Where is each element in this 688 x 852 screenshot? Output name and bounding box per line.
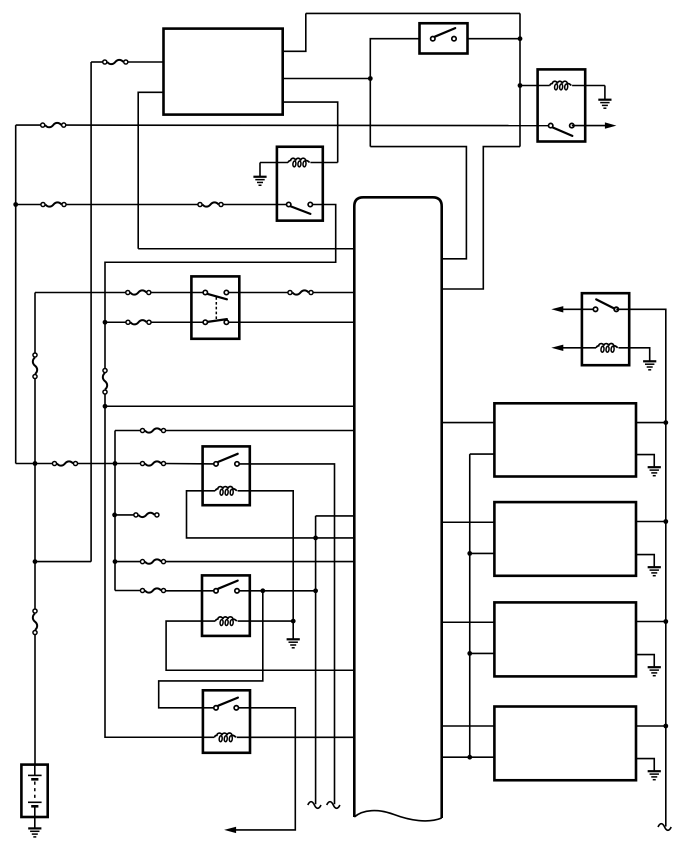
relay K2 coil <box>550 81 572 90</box>
node dot (115,561.6) <box>113 559 118 564</box>
battery BT1 cells <box>28 765 42 817</box>
node dot (114.6,514.9) <box>112 513 117 518</box>
wire M2 ground stub <box>636 555 654 568</box>
wire bus y=204.5 <box>16 204 289 206</box>
wire U1 pin3 to relay K1 coil <box>283 102 338 162</box>
fuse F4 <box>198 202 223 206</box>
relay K5 box (lower left) <box>202 575 250 636</box>
wire rail to M4 lower <box>442 756 495 758</box>
wire K2 ground stem <box>604 86 606 100</box>
wire rail x=105 lower <box>105 393 203 738</box>
node dot (665.8,521.5) <box>663 519 668 524</box>
wire K3 coil left lead <box>557 347 596 349</box>
wire relay K6 switch out to arrow <box>236 708 296 830</box>
wire M2 right to rail <box>636 521 666 523</box>
relay K2 switch contacts <box>549 123 575 127</box>
wire bus y=561.6 into U2 <box>115 561 354 563</box>
relay K6 switch lever <box>218 698 238 706</box>
node dot (115,463.5) <box>113 461 118 466</box>
wire x=35 to x=91 link <box>35 561 91 563</box>
fuse F5 <box>126 290 151 294</box>
wire break squiggle x=315.6 <box>308 802 321 809</box>
wire bus y=248.75 into U2 <box>138 248 353 250</box>
load module M3 (right box 3) <box>494 602 636 676</box>
relay K2 switch lever <box>553 128 573 136</box>
ground G9 M4 <box>648 771 661 780</box>
relay K1 box (top middle) <box>277 147 323 221</box>
relay K1 switch contacts <box>287 202 313 206</box>
wire relay K6 coil right into U2 <box>237 736 354 738</box>
wire top bus y=13.4 <box>306 12 520 14</box>
wire rail x=315.6 <box>315 516 317 804</box>
load module M4 (right box 4) <box>494 707 636 781</box>
node dot (519.5,85.5) <box>518 83 523 88</box>
load module M2 (right box 2) <box>494 502 636 576</box>
wire long bus y=125 <box>16 124 551 127</box>
wire M1 right to rail <box>636 422 666 424</box>
fuse F1 <box>103 60 128 64</box>
relay K3 coil <box>596 344 618 353</box>
wire U1 pin2 to node <box>283 78 371 80</box>
node dot (293.2,621.1) <box>291 619 296 624</box>
ground G7 M2 <box>648 567 661 576</box>
relay K3 box (right middle) <box>582 293 629 365</box>
wire M1 ground stub <box>636 455 654 468</box>
wire bus y=430.5 into U2 <box>115 430 354 432</box>
relay K3 switch contacts <box>593 307 618 311</box>
wire M4 right to rail <box>636 725 666 727</box>
DPDT S2 levers <box>208 294 227 322</box>
load module M1 (right box 1) <box>494 403 636 476</box>
fuse F16 vertical on x=105 <box>103 368 107 394</box>
switch S1 contacts <box>431 37 457 41</box>
node dot (665.8,726) <box>663 724 668 729</box>
wire bus y=463.5 <box>16 463 216 465</box>
wire ground stem node x=293 <box>292 621 294 639</box>
relay K4 switch contacts <box>214 462 239 466</box>
fuse F3 <box>41 202 66 206</box>
wire U2 to M3 upper <box>442 621 495 623</box>
wire y=515.9 into U2 <box>316 515 354 517</box>
node dot (665.8,422.6) <box>663 420 668 425</box>
relay K4 box (mid left) <box>203 446 250 505</box>
wire break squiggle x=334.5 <box>327 802 340 809</box>
wire bus y=322.25 <box>105 321 354 323</box>
node dot (370.3,78.5) <box>368 76 373 81</box>
wire net A into U2 <box>370 147 466 259</box>
wire K6 coil inner lead <box>203 736 214 738</box>
wire U2 to M1 upper <box>442 422 495 424</box>
wire K1 ground stem <box>259 163 261 177</box>
node dot (35,463.5) <box>33 461 38 466</box>
node dot (469.75,756.5) <box>467 755 472 760</box>
relay K3 switch lever <box>596 299 614 308</box>
relay K2 box (top right) <box>538 69 586 141</box>
node dot (15.7,204.5) <box>13 202 18 207</box>
node dot (105,406.25) <box>103 404 108 409</box>
switch S1 lever <box>435 28 455 37</box>
wire U2 to M2 upper <box>442 521 495 523</box>
fuse F15 vertical on x=35 <box>33 609 37 635</box>
wire M3 ground stub <box>636 655 654 668</box>
wire relay K4 coil right down <box>238 491 294 621</box>
wire S1 left lead <box>370 39 419 147</box>
fuse F10 <box>140 461 165 465</box>
wire K1 coil leads <box>260 162 338 164</box>
wire K2 coil leads <box>520 85 605 87</box>
fuse F13 <box>140 588 165 592</box>
wire bus y=590.8 to relay K5 <box>115 590 216 592</box>
node dot (105,322.25) <box>103 320 108 325</box>
fuse F14 vertical on x=35 <box>33 353 37 379</box>
wire feed rail x=469.75 to M1 <box>470 454 495 757</box>
wire K2 switch out to arrow <box>572 125 606 127</box>
relay K5 switch lever <box>218 581 238 589</box>
wire bus y=406.25 into U2 <box>105 405 354 407</box>
DPDT S2 contacts <box>203 290 228 324</box>
relay K5 coil <box>215 617 237 626</box>
wire rail x=115 <box>114 431 116 591</box>
wire rail x=35 <box>34 293 36 765</box>
wire left rail x=16 <box>15 125 17 463</box>
wire relay K5 switch out <box>237 590 316 592</box>
battery BT1 box <box>21 765 47 817</box>
wire M3 right to rail <box>636 621 666 623</box>
wire U1 pin4 to rail x=138 <box>138 92 163 248</box>
ground G3 <box>643 361 656 370</box>
wire K3 switch right to rail <box>616 309 666 826</box>
fuse F8 <box>140 428 165 432</box>
wire left rail x=91 <box>90 62 92 562</box>
DPDT S2 dashed link <box>215 297 217 319</box>
wire U1 pin to top bus <box>283 13 306 51</box>
wire U2 to M4 upper <box>442 725 495 727</box>
DPDT switch S2 box <box>191 276 239 338</box>
wire bus y=292.5 <box>35 292 354 294</box>
wire top bus down to switch S1 net <box>519 13 521 146</box>
relay K1 coil <box>288 158 310 167</box>
wire fuse F11 stub <box>115 514 136 516</box>
central connector module U2 (tall rounded box with torn bottom) <box>354 197 441 821</box>
node dot (469.75,653.4) <box>467 651 472 656</box>
node dot (519.5,38.7) <box>518 36 523 41</box>
arrow A4 left <box>224 827 236 833</box>
wire rail x=262.8 down <box>159 591 263 708</box>
wire rail to M2 lower <box>470 552 495 554</box>
ground G5 battery <box>28 828 41 837</box>
relay K4 coil <box>215 487 237 496</box>
relay K6 switch contacts <box>214 706 239 710</box>
relay K1 switch lever <box>291 206 311 214</box>
wire net B into U2 <box>442 147 520 289</box>
fuse F12 <box>140 559 165 563</box>
relay K4 switch lever <box>218 454 238 462</box>
node dot (35,561.6) <box>33 559 38 564</box>
wire battery ground stem <box>34 817 36 828</box>
node dot (469.75,553.4) <box>467 551 472 556</box>
relay K5 switch contacts <box>214 589 239 593</box>
fuse F9 <box>52 461 77 465</box>
wire K3 coil right to ground <box>619 348 650 362</box>
node dot (315.6,590.8) <box>313 588 318 593</box>
relay K6 coil <box>214 733 236 742</box>
wire rail to M3 lower <box>470 652 495 654</box>
arrow A1 right <box>605 122 617 128</box>
ground G4 <box>287 639 300 648</box>
wire K1 switch out <box>105 205 336 371</box>
ground G8 M3 <box>648 667 661 676</box>
wire fuse F1 line to U1 <box>91 61 163 63</box>
wire relay K4 coil left loop <box>187 491 354 538</box>
ECU module U1 (top-left large box) <box>164 29 283 115</box>
fuse F6 <box>288 290 313 294</box>
wire relay K5 coil right to ground node <box>238 620 294 622</box>
relay K6 box (bottom) <box>203 690 250 753</box>
wire K3 switch left lead <box>557 308 596 310</box>
fuse F11 <box>134 513 159 517</box>
wire M4 ground stub <box>636 759 654 772</box>
node dot (315.6,537.9) <box>313 536 318 541</box>
fuse F2 <box>41 123 66 127</box>
ground G2 <box>598 100 611 109</box>
ground G1 <box>253 177 266 186</box>
node dot (665.8,621.5) <box>663 619 668 624</box>
wire relay K4 switch out down rail x=334.5 <box>237 464 335 804</box>
node dot (262.8,590.8) <box>260 588 265 593</box>
wire relay K5 coil left <box>166 621 353 670</box>
arrow A2 left <box>551 306 563 312</box>
wire break squiggle x=665.8 <box>658 824 671 831</box>
fuse F7 <box>126 320 151 324</box>
switch S1 box (top) <box>420 23 468 53</box>
arrow A3 left <box>551 345 563 351</box>
wire S1 right lead <box>468 38 521 40</box>
ground G6 M1 <box>648 467 661 476</box>
